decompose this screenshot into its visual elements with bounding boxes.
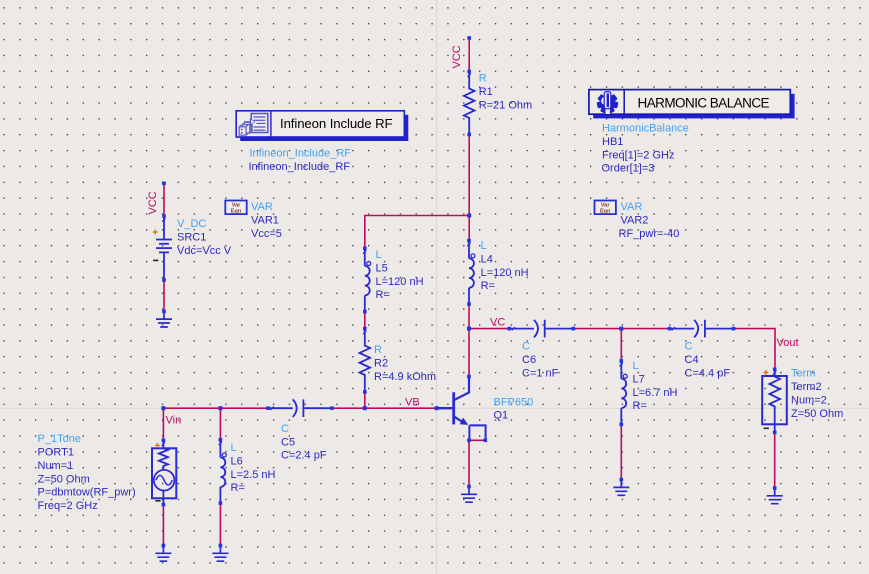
L7 labels [633,360,678,412]
svg-text:VAR: VAR [251,201,273,213]
pin R1.1 [467,70,471,74]
pin ground SRC1 [162,310,166,314]
svg-text:HarmonicBalance: HarmonicBalance [602,123,689,135]
ground SRC1 [156,311,172,327]
wire VB left segment [163,407,268,409]
pin ground Term2 [773,486,777,490]
svg-text:Num=1: Num=1 [38,460,74,472]
svg-text:Z=50 Ohm: Z=50 Ohm [791,408,843,420]
pin C5.1 [266,406,270,410]
svg-text:Q1: Q1 [494,410,509,422]
junction L7 / VC wire [619,327,623,331]
wire Term to ground [774,432,776,488]
source PORT1 [152,440,176,504]
capacitor C4 [670,320,734,338]
svg-text:L: L [376,249,382,261]
svg-text:R=: R= [633,400,647,412]
junction R2 / VB wire [363,406,367,410]
svg-text:Freq=2 GHz: Freq=2 GHz [38,500,98,512]
pin L7.1 [620,359,624,363]
pin Q1 collector [467,375,471,379]
svg-text:R=: R= [376,289,390,301]
svg-text:C: C [685,341,693,353]
svg-text:L=120 nH: L=120 nH [376,276,424,288]
origin axis horizontal [0,407,869,409]
pin1 tick Term2 [773,372,776,375]
svg-text:R1: R1 [479,86,493,98]
svg-text:C: C [522,341,530,353]
svg-text:Eqn: Eqn [600,209,611,215]
Infineon icon cubes [239,122,252,135]
svg-text:Vcc=5: Vcc=5 [251,228,282,240]
svg-text:L: L [633,360,639,372]
junction VB wire / Q1 base [435,406,439,410]
wire L7 to ground [620,424,622,479]
svg-text:R=: R= [481,280,495,292]
junction node Vin [161,406,165,410]
resistor R1 [464,72,475,135]
plus sign Term2 [763,370,768,375]
pin Q1 emitter 1 [467,439,471,443]
svg-text:C6: C6 [522,354,536,366]
pin L5.1 [363,246,367,250]
svg-text:R=21 Ohm: R=21 Ohm [479,99,533,111]
svg-text:RF_pwr=-40: RF_pwr=-40 [619,228,680,240]
pin L4.1 [467,239,471,243]
pin C6.2 [572,327,576,331]
svg-text:R: R [479,73,487,85]
svg-text:BFP650: BFP650 [494,396,534,408]
L5 labels [376,249,424,301]
pin C5.2 [330,406,334,410]
HB gear icon [596,92,618,114]
ground Q1 [461,487,477,503]
svg-text:Order[1]=3: Order[1]=3 [602,163,655,175]
inductor L5 [365,248,371,311]
node VCC left endpoint [162,182,166,186]
pin SRC1.1 [162,214,166,218]
VAR1 labels [251,201,282,240]
pin L6.1 [219,438,223,442]
svg-text:R=4.9 kOhm: R=4.9 kOhm [374,371,436,383]
ground L7 [613,480,629,496]
pin R1.2 [467,133,471,137]
capacitor C6 [509,320,573,338]
svg-text:R2: R2 [374,357,388,369]
svg-text:VCC: VCC [451,45,463,68]
L4 labels [481,240,529,292]
pin Term2.1 [773,368,777,372]
junction node VC [467,327,471,331]
svg-text:Term: Term [791,368,815,380]
wire Q1 emitter to ground [468,440,470,486]
svg-text:VB: VB [405,396,420,408]
pin L6.2 [219,501,223,505]
svg-text:Infineon_Include_RF: Infineon_Include_RF [250,148,352,160]
wire L6 to ground [219,503,221,545]
wire VCC stub to R1 [468,38,470,72]
wire Q1 emitter bridge [469,439,485,441]
svg-text:C=2.4 pF: C=2.4 pF [281,450,327,462]
svg-text:C: C [281,423,289,435]
svg-text:V_DC: V_DC [177,218,206,230]
svg-text:SRC1: SRC1 [177,231,206,243]
wire PORT1 to ground [162,505,164,546]
pin1 tick C5 [271,407,274,410]
svg-text:L=6.7 nH: L=6.7 nH [633,387,678,399]
pin Term2.2 [773,431,777,435]
inductor L7 [621,361,627,424]
svg-text:P=dbmtow(RF_pwr): P=dbmtow(RF_pwr) [38,487,136,499]
svg-text:C=4.4 pF: C=4.4 pF [685,367,731,379]
transistor Q1 [437,377,486,441]
svg-text:Vin: Vin [166,414,182,426]
svg-text:L=120 nH: L=120 nH [481,267,529,279]
plus sign SRC1 [153,230,158,235]
battery SRC1 [156,216,172,280]
wire VCC node to SRC1 [163,183,165,216]
svg-text:L6: L6 [231,455,243,467]
inductor L4 [469,241,475,304]
svg-text:VAR2: VAR2 [621,214,649,226]
svg-text:L: L [231,442,237,454]
pin PORT1.1 [162,439,166,443]
svg-text:Z=50 Ohm: Z=50 Ohm [38,473,90,485]
wire SRC1 to ground [163,280,165,311]
L6 labels [231,442,276,494]
pin ground L7 [620,478,624,482]
wire R1 to L4 through junction [468,135,470,241]
C5 labels [281,423,327,462]
PORT1 labels [38,433,136,512]
VAR2 labels [619,201,680,240]
resistor R2 [359,329,370,392]
ground L6 [212,546,228,562]
V_DC labels [177,218,232,257]
Q1 labels [494,396,534,421]
wire L4 to VC junction [468,304,470,329]
pin L7.2 [620,423,624,427]
minus sign SRC1 [153,259,158,261]
HARMONIC BALANCE block [589,90,795,119]
pin ground L6 [219,544,223,548]
term Term2 [762,369,787,432]
wire L7 junction down [620,329,622,361]
pin1 tick R1 [467,74,470,77]
pin C6.1 [508,327,512,331]
svg-text:Infineon_Include_RF: Infineon_Include_RF [249,161,351,173]
pin1 tick L4 [467,243,470,246]
wire L6 junction down [219,408,221,440]
wire C6 to C4 through L7 junction [573,328,669,330]
svg-text:Term2: Term2 [791,381,822,393]
svg-text:VCC: VCC [147,191,159,214]
pin1 tick C6 [512,327,515,330]
pin1 tick L7 [620,363,623,366]
svg-text:Infineon Include RF: Infineon Include RF [280,116,393,131]
node VCC top endpoint [467,36,471,40]
pin PORT1.2 [162,503,166,507]
wire VC junction to C6 [469,328,509,330]
svg-text:HARMONIC BALANCE: HARMONIC BALANCE [638,95,770,110]
pin ground PORT1 [162,544,166,548]
minus sign PORT1 [155,500,160,502]
minus sign Term2 [764,427,769,429]
svg-text:Eqn: Eqn [231,209,242,215]
origin axis vertical [436,0,438,574]
svg-text:Vdc=Vcc V: Vdc=Vcc V [177,245,232,257]
VAR2 box [595,201,616,215]
svg-text:L7: L7 [633,373,645,385]
svg-text:HB1: HB1 [602,136,623,148]
pin R2.2 [363,390,367,394]
svg-text:R: R [374,344,382,356]
wire VC junction to collector [468,329,470,377]
pin1 tick L6 [219,442,222,445]
wire top horizontal L5 to VCC rail [365,216,469,249]
pin L5.2 [363,310,367,314]
svg-text:Freq[1]=2 GHz: Freq[1]=2 GHz [602,149,674,161]
R2 labels [374,344,436,383]
svg-text:C5: C5 [281,436,295,448]
svg-text:L=2.5 nH: L=2.5 nH [231,469,276,481]
svg-text:L5: L5 [376,262,388,274]
pin L4.2 [467,302,471,306]
svg-text:VAR1: VAR1 [251,214,279,226]
Infineon Include RF block [236,111,408,141]
svg-text:L4: L4 [481,253,493,265]
pin1 tick SRC1 [162,218,165,221]
svg-text:L: L [481,240,487,252]
pin SRC1.2 [162,278,166,282]
Infineon icon document [251,114,267,133]
wire R2 to VB [364,392,366,408]
plus sign PORT1 [155,443,160,448]
ground Term2 [767,488,783,504]
svg-text:Vout: Vout [777,337,799,349]
C6 labels [522,341,559,380]
wire Vin junction to PORT1 [162,408,164,440]
C4 labels [685,341,731,380]
svg-text:VC: VC [490,317,505,329]
inductor L6 [220,440,226,503]
svg-text:C4: C4 [685,354,699,366]
svg-text:P_1Tone: P_1Tone [38,433,81,445]
pin1 tick C4 [672,327,675,330]
pin ground Q1 [467,485,471,489]
junction VCC rail / top wire [467,214,471,218]
Term2 labels [791,368,843,420]
wire C4 to Vout corner down to Term [734,329,776,370]
wire L5 to R2 [364,312,366,329]
R1 labels [479,73,533,112]
svg-text:Num=2: Num=2 [791,394,827,406]
pin1 tick PORT1 [162,443,165,446]
junction L6 / VB wire [218,406,222,410]
wire VB right segment [332,407,437,409]
HB labels [602,123,689,175]
ground PORT1 [155,546,171,562]
pin1 tick L5 [363,250,366,253]
pin C4.2 [732,327,736,331]
pin1 tick R2 [363,331,366,334]
svg-text:R=: R= [231,482,245,494]
capacitor C5 [268,399,332,417]
svg-text:C=1 nF: C=1 nF [522,367,559,379]
svg-text:VAR: VAR [621,201,643,213]
Infineon icon arrow [244,118,256,125]
svg-text:PORT1: PORT1 [38,447,74,459]
pin C4.1 [668,327,672,331]
pin R2.1 [363,327,367,331]
pin Q1 emitter 2 [484,439,488,443]
VAR1 box [225,201,246,215]
